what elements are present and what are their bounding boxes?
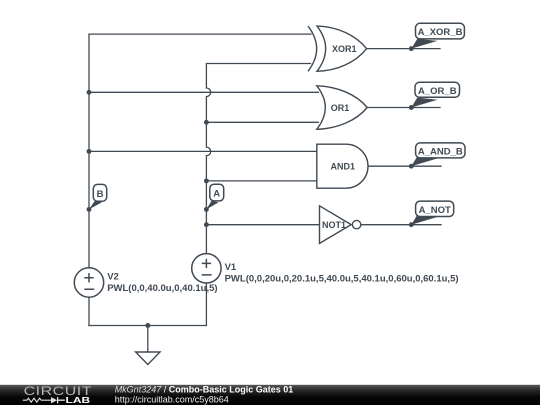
wire B to AND1 top input (89, 150, 317, 152)
svg-text:V2: V2 (107, 271, 119, 282)
not gate NOT1 (320, 206, 361, 244)
node flag A_XOR_B (411, 23, 464, 48)
svg-text:PWL(0,0,40.0u,0,40.1u,5): PWL(0,0,40.0u,0,40.1u,5) (107, 283, 217, 294)
wire AND1 output to A_AND_B (368, 165, 441, 167)
svg-text:PWL(0,0,20u,0,20.1u,5,40.0u,5,: PWL(0,0,20u,0,20.1u,5,40.0u,5,40.1u,0,60… (225, 273, 459, 284)
node junction NOT out (409, 222, 414, 227)
svg-text:AND1: AND1 (331, 162, 356, 172)
wire A to OR1 bottom input (206, 121, 318, 123)
circuitlab logo (23, 385, 92, 405)
node flag B (89, 184, 107, 209)
node junction A-flag (204, 207, 209, 212)
and gate AND1 (317, 144, 368, 188)
node junction XOR out (409, 46, 414, 51)
svg-text:NOT1: NOT1 (322, 220, 346, 230)
svg-text:A_AND_B: A_AND_B (418, 146, 463, 157)
svg-text:OR1: OR1 (331, 103, 350, 113)
node flag A_OR_B (411, 82, 459, 107)
wire OR1 output to A_OR_B (367, 107, 440, 109)
wire NOT1 output to A_NOT (361, 224, 441, 226)
node junction A-NOT (204, 222, 209, 227)
svg-text:B: B (97, 189, 104, 200)
wire V2 bottom lead (88, 297, 90, 325)
wire B to OR1 top input (89, 91, 318, 93)
node junction B-AND (87, 149, 92, 154)
or gate OR1 (317, 86, 367, 130)
node junction A-OR (204, 120, 209, 125)
node junction B-OR (87, 90, 92, 95)
node flag A (206, 184, 223, 209)
wire A to AND1 bottom input (206, 180, 317, 182)
svg-text:XOR1: XOR1 (332, 44, 357, 54)
wire V1 bottom lead (205, 283, 207, 326)
wire ground stem (147, 326, 149, 355)
node junction B-flag (87, 207, 92, 212)
wire A to NOT1 input (206, 224, 319, 226)
svg-text:A: A (213, 189, 220, 200)
voltage source V1 (192, 254, 459, 285)
svg-text:A_OR_B: A_OR_B (418, 86, 457, 97)
node junction ground (145, 323, 150, 328)
node flag A_AND_B (411, 143, 465, 166)
xor gate XOR1 (308, 26, 367, 71)
svg-text:LAB: LAB (66, 397, 91, 405)
wire net A: XOR bottom input, bus down with hops to V1 (206, 64, 310, 254)
node junction AND out (409, 164, 414, 169)
wire net B: top rail from bus to XOR top input, bus down to V2 (89, 34, 311, 268)
node flag A_NOT (411, 201, 453, 225)
svg-text:http://circuitlab.com/c5y8b64: http://circuitlab.com/c5y8b64 (115, 395, 229, 405)
svg-text:V1: V1 (225, 262, 237, 273)
svg-text:A_XOR_B: A_XOR_B (418, 27, 463, 38)
svg-text:MkGnt3247 / Combo-Basic Logic: MkGnt3247 / Combo-Basic Logic Gates 01 (115, 385, 294, 395)
voltage source V2 (74, 268, 217, 297)
ground (136, 352, 160, 365)
wire bottom rail (89, 325, 206, 327)
node junction OR out (409, 105, 414, 110)
wire XOR1 output to A_XOR_B (367, 48, 440, 50)
node junction A-AND (204, 178, 209, 183)
svg-text:A_NOT: A_NOT (419, 205, 451, 216)
